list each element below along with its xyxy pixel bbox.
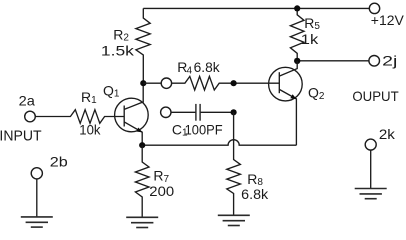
junction dot: R4 / C1 branch / Q2 base xyxy=(231,80,237,86)
transistor Q1 xyxy=(115,83,149,145)
resistor R5 (1k) with leads xyxy=(290,8,304,60)
wire: 2k to ground xyxy=(370,150,372,188)
wire: connector to C1 left plate xyxy=(171,111,195,113)
connector circle (R4 row) xyxy=(161,78,171,88)
junction dot: Q1 emitter / R7 / emitter bus xyxy=(139,142,145,148)
svg-text:2k: 2k xyxy=(379,126,396,142)
svg-text:1k: 1k xyxy=(301,31,320,47)
svg-text:10k: 10k xyxy=(79,121,101,137)
wire: 2b to ground xyxy=(36,179,38,217)
terminal 2a xyxy=(25,111,36,122)
wire: C1 right plate to node xyxy=(201,111,234,113)
svg-text:6.8k: 6.8k xyxy=(194,59,221,75)
wire: emitter bus with hop over R8 branch xyxy=(142,140,296,146)
svg-text:1.5k: 1.5k xyxy=(101,42,135,58)
resistor R8 (6.8k) with leads xyxy=(227,112,241,215)
capacitor C1 100PF xyxy=(196,104,200,121)
resistor R1 (10k) with leads: input to Q1 base xyxy=(35,110,124,124)
terminal +12V xyxy=(369,3,379,13)
svg-text:+12V: +12V xyxy=(371,12,405,28)
resistor R2 (1.5k) with leads xyxy=(136,8,150,83)
junction dot: R2 / Q1 collector / R4 branch xyxy=(140,80,146,86)
junction dot: rail / R5 xyxy=(294,5,300,11)
svg-text:100PF: 100PF xyxy=(185,121,223,137)
ground (below 2b) xyxy=(21,217,53,227)
svg-text:6.8k: 6.8k xyxy=(241,186,269,202)
wire: R5 node to output terminal 2j xyxy=(297,60,369,62)
svg-text:OUPUT: OUPUT xyxy=(352,88,399,104)
svg-text:2b: 2b xyxy=(50,153,68,169)
svg-text:INPUT: INPUT xyxy=(0,129,42,145)
wire: +12V supply rail xyxy=(143,7,369,9)
terminal 2j xyxy=(369,56,380,67)
resistor R4 (6.8k) with leads to Q2 base xyxy=(172,76,280,90)
wire: node to test point circle (R4 row) xyxy=(143,82,161,84)
junction dot: R5 / Q2 collector / 2j xyxy=(294,58,300,64)
resistor R7 (200) with leads xyxy=(135,145,149,217)
svg-text:200: 200 xyxy=(149,183,174,199)
ground (below R7) xyxy=(126,217,158,227)
junction dot: C1 / R8 branch xyxy=(231,109,237,115)
terminal 2k xyxy=(365,139,376,150)
svg-text:2a: 2a xyxy=(19,92,35,108)
ground (below 2k) xyxy=(355,189,387,199)
connector circle (C1 row) xyxy=(161,107,171,117)
terminal 2b xyxy=(31,168,42,179)
svg-text:2j: 2j xyxy=(382,52,397,68)
ground (below R8) xyxy=(218,215,250,225)
transistor Q2 xyxy=(269,61,303,145)
